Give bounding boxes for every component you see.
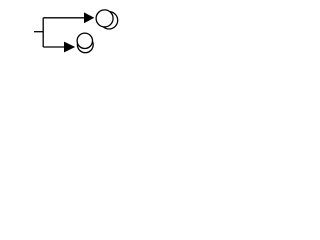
bottom arrowhead [64,42,75,53]
input stub wire [34,31,43,33]
node B back circle (bottom pair, crescent behind) [77,37,93,53]
node A back circle (top pair, crescent behind) [100,12,117,29]
top wire [43,17,84,19]
bottom wire [43,46,64,48]
node A front circle (top pair) [96,10,113,27]
node B front circle (bottom pair) [77,33,92,48]
top arrowhead [84,12,94,23]
vertical branch wire [42,18,44,47]
